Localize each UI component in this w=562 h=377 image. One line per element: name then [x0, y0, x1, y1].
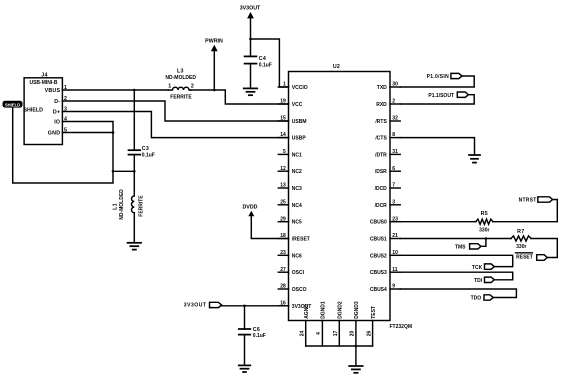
wire IO down [62, 122, 113, 172]
wire R7 to RESET [531, 239, 557, 258]
svg-text:28: 28 [280, 284, 286, 290]
svg-text:PWRIN: PWRIN [205, 39, 223, 45]
svg-text:0.1uF: 0.1uF [253, 333, 266, 339]
svg-text:6: 6 [392, 166, 395, 172]
svg-text:29: 29 [280, 216, 286, 222]
svg-text:C6: C6 [253, 327, 260, 333]
wire 3V3OUT to pin 16 [222, 305, 289, 307]
svg-text:/RTS: /RTS [375, 119, 387, 125]
svg-text:OSCI: OSCI [292, 270, 305, 276]
svg-text:C3: C3 [142, 146, 149, 152]
svg-text:NC6: NC6 [292, 253, 302, 259]
svg-text:8: 8 [392, 132, 395, 138]
svg-text:330r: 330r [479, 227, 489, 233]
svg-text:18: 18 [280, 233, 286, 239]
U2 right pin stubs and labels [370, 82, 400, 293]
capacitor C6 [239, 306, 266, 365]
power flag DVDD [242, 205, 288, 239]
svg-text:32: 32 [392, 116, 398, 122]
ground bus under U2 [306, 345, 373, 347]
ferrite L1 [113, 171, 145, 242]
svg-text:330r: 330r [516, 244, 526, 250]
svg-text:DGND2: DGND2 [338, 301, 344, 319]
svg-text:IO: IO [54, 119, 60, 125]
svg-text:/DSR: /DSR [375, 169, 387, 175]
svg-text:12: 12 [280, 166, 286, 172]
svg-text:DGND1: DGND1 [321, 301, 327, 319]
svg-text:NC1: NC1 [292, 152, 302, 158]
svg-text:0.1uF: 0.1uF [259, 62, 272, 68]
wire D- to USBM pin 15 [62, 101, 288, 121]
wire R5 to NTRST [493, 200, 557, 222]
svg-text:/DCR: /DCR [375, 203, 388, 209]
svg-text:3V3OUT: 3V3OUT [184, 303, 207, 309]
svg-text:GND: GND [48, 130, 61, 136]
svg-text:SHIELD: SHIELD [24, 107, 44, 113]
svg-text:FERRITE: FERRITE [139, 195, 145, 217]
wire RXD to P1.1/SOUT [400, 95, 474, 104]
junction C6 [243, 305, 246, 308]
op IC U2 FT232 [289, 64, 413, 330]
svg-text:/RESET: /RESET [292, 237, 310, 243]
svg-text:ND-MOLDED: ND-MOLDED [119, 189, 125, 220]
svg-text:11: 11 [392, 267, 398, 273]
connector tag P1.0/SIN [427, 73, 462, 80]
svg-text:31: 31 [392, 149, 398, 155]
wire shield to ground loop [13, 108, 113, 183]
svg-text:13: 13 [280, 183, 286, 189]
resistor R5 330r [476, 211, 493, 233]
svg-text:R5: R5 [481, 211, 488, 217]
svg-text:L1: L1 [113, 203, 119, 210]
svg-text:USBM: USBM [292, 119, 307, 125]
svg-text:DGND3: DGND3 [354, 301, 360, 319]
svg-text:0.1uF: 0.1uF [142, 153, 155, 159]
svg-text:NC4: NC4 [292, 203, 302, 209]
ground at /CTS [469, 154, 480, 156]
svg-text:P1.1/SOUT: P1.1/SOUT [428, 93, 454, 99]
svg-text:VBUS: VBUS [45, 88, 61, 94]
connector tag P1.1/SOUT [428, 92, 468, 99]
ground below U2 [355, 346, 357, 366]
wire VBUS to ferrite L3 [62, 89, 168, 91]
capacitor C4 [245, 56, 272, 88]
svg-text:USBP: USBP [292, 136, 307, 142]
svg-text:TCK: TCK [472, 265, 483, 271]
junction PWRIN/VBUS [213, 89, 216, 92]
connector tag RESET (active low) [516, 253, 548, 260]
svg-text:25: 25 [280, 199, 286, 205]
svg-text:30: 30 [392, 82, 398, 88]
U2 bottom pin stubs and labels [300, 301, 377, 346]
connector tag TDI [474, 277, 494, 284]
capacitor C3 [129, 90, 155, 171]
wire junction to TMS tag [481, 239, 486, 247]
wire CBUS4 to TDO [400, 289, 516, 298]
svg-text:5: 5 [283, 149, 286, 155]
svg-text:26: 26 [366, 331, 372, 337]
svg-text:21: 21 [392, 233, 398, 239]
wire node to C3 leg [113, 170, 134, 172]
svg-text:L3: L3 [177, 69, 184, 75]
svg-text:TDI: TDI [474, 278, 483, 284]
wire CBUS1 to R7 [400, 238, 511, 240]
wire CBUS3 to TDI [400, 272, 513, 280]
junction C3 leg [133, 170, 136, 173]
connector tag NTRST [519, 197, 553, 204]
svg-text:ND-MOLDED: ND-MOLDED [165, 75, 196, 81]
wire /CTS to ground [400, 138, 474, 155]
svg-text:19: 19 [280, 99, 286, 105]
svg-text:10: 10 [392, 250, 398, 256]
svg-text:3V3OUT: 3V3OUT [240, 5, 261, 11]
svg-text:1: 1 [283, 82, 286, 88]
svg-text:NC2: NC2 [292, 169, 302, 175]
connector J4 USB-MINI-B [24, 73, 68, 145]
junction shield node [112, 170, 115, 173]
svg-text:C4: C4 [259, 56, 266, 62]
svg-text:23: 23 [280, 250, 286, 256]
svg-text:AGND: AGND [304, 304, 310, 319]
wire L3 to VCC pin 19 [191, 90, 289, 104]
svg-text:14: 14 [280, 132, 286, 138]
connector tag 3V3OUT [184, 302, 222, 308]
net label SHIELD [3, 101, 23, 108]
svg-text:D-: D- [54, 99, 60, 105]
svg-text:2: 2 [191, 84, 194, 90]
svg-text:CBUS0: CBUS0 [370, 220, 387, 226]
wire GND [62, 132, 113, 134]
svg-text:23: 23 [392, 216, 398, 222]
svg-text:/DCD: /DCD [375, 186, 388, 192]
power flag PWRIN [205, 39, 223, 91]
svg-text:TMS: TMS [455, 244, 466, 250]
svg-text:FERRITE: FERRITE [170, 95, 192, 101]
ground below C4 [244, 87, 258, 89]
svg-text:CBUS2: CBUS2 [370, 253, 387, 259]
wire TXD to P1.0/SIN [400, 76, 474, 87]
svg-text:24: 24 [300, 331, 306, 337]
svg-text:RXD: RXD [376, 102, 387, 108]
svg-text:TDO: TDO [471, 296, 482, 302]
wire CBUS0 to R5 [400, 221, 476, 223]
wire CBUS2 to TCK [400, 255, 513, 266]
svg-text:20: 20 [350, 331, 356, 337]
svg-text:OSCO: OSCO [292, 287, 307, 293]
svg-text:2: 2 [392, 99, 395, 105]
svg-text:P1.0/SIN: P1.0/SIN [427, 74, 449, 80]
connector tag TCK [472, 264, 494, 271]
svg-text:NC5: NC5 [292, 220, 302, 226]
ferrite L3 [165, 69, 196, 101]
junction TMS [485, 237, 488, 240]
svg-text:3: 3 [392, 199, 395, 205]
svg-text:9: 9 [392, 284, 395, 290]
svg-text:DVDD: DVDD [242, 205, 257, 211]
svg-text:NTRST: NTRST [519, 197, 537, 203]
junction IO/GND [112, 131, 115, 134]
svg-text:J4: J4 [41, 73, 47, 79]
junction 3V3OUT rail [249, 38, 252, 41]
svg-text:/DTR: /DTR [375, 152, 387, 158]
junction ground bus [355, 345, 358, 348]
connector tag TDO [471, 295, 494, 302]
ground below C6 [239, 364, 251, 366]
U2 left pin stubs and labels [278, 82, 311, 310]
svg-text:D+: D+ [53, 109, 60, 115]
connector tag TMS [455, 244, 481, 251]
ground below L1 [128, 242, 142, 244]
svg-text:VCC: VCC [292, 102, 303, 108]
svg-text:1: 1 [168, 84, 171, 90]
svg-text:17: 17 [333, 331, 339, 337]
svg-text:TXD: TXD [377, 85, 387, 91]
svg-text:4: 4 [316, 332, 322, 335]
junction C3 branch [133, 89, 136, 92]
wire D+ to USBP pin 14 [62, 112, 288, 138]
resistor R7 330r [511, 229, 531, 250]
svg-text:NC3: NC3 [292, 186, 302, 192]
svg-text:15: 15 [280, 116, 286, 122]
svg-text:USB-MINI-B: USB-MINI-B [29, 80, 57, 86]
wire 3V3OUT to VCCIO pin 1 [251, 39, 289, 87]
svg-text:R7: R7 [517, 229, 524, 235]
svg-text:VCCIO: VCCIO [292, 85, 308, 91]
power flag 3V3OUT top [240, 5, 261, 56]
svg-text:FT232QM: FT232QM [390, 324, 413, 330]
svg-text:CBUS4: CBUS4 [370, 287, 387, 293]
svg-text:TEST: TEST [371, 306, 377, 319]
svg-text:CBUS3: CBUS3 [370, 270, 387, 276]
svg-text:RESET: RESET [516, 254, 533, 260]
svg-text:SHIELD: SHIELD [5, 102, 20, 107]
svg-text:/CTS: /CTS [375, 136, 387, 142]
svg-text:U2: U2 [333, 64, 340, 70]
svg-text:27: 27 [280, 267, 286, 273]
svg-text:CBUS1: CBUS1 [370, 237, 387, 243]
svg-text:7: 7 [392, 183, 395, 189]
